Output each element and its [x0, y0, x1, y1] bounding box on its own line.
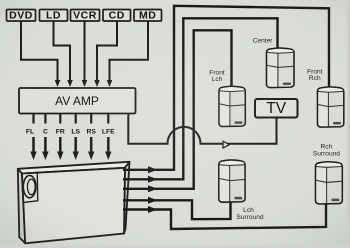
- arrowhead LS into woofer: [73, 152, 79, 161]
- speaker name labels: [209, 38, 340, 221]
- woofer front face: [22, 168, 125, 244]
- arrowhead MD into AMP: [107, 80, 113, 87]
- woofer driver inner ellipse: [27, 179, 35, 195]
- AV AMP box: [19, 88, 136, 114]
- arrow shaft FL: [32, 137, 35, 152]
- arrowhead CD into AMP: [94, 80, 100, 87]
- woofer right face: [124, 162, 130, 234]
- wire LD to AMP: [54, 21, 71, 81]
- box MD: [134, 10, 162, 22]
- page bottom edge shading: [0, 245, 350, 248]
- arrowhead C into woofer: [42, 152, 48, 161]
- arrowhead LFE into woofer: [105, 152, 111, 161]
- speaker Front Lch: [219, 86, 245, 126]
- speaker wires from woofer: [123, 6, 329, 229]
- woofer driver panel separator: [23, 173, 38, 203]
- wire VCR to AMP: [84, 21, 86, 81]
- box VCR: [71, 10, 100, 22]
- speaker Center: [266, 48, 294, 88]
- box DVD: [7, 10, 36, 22]
- active woofer module 3D box: [18, 162, 130, 244]
- wires sources to AV AMP: [21, 21, 148, 81]
- AMP output stubs: [34, 114, 109, 124]
- woofer top face: [18, 162, 130, 174]
- wire CD to AMP: [97, 21, 117, 81]
- arrowhead LD into AMP: [67, 80, 73, 87]
- wire DVD to AMP: [21, 21, 58, 81]
- wire W2 to Center: [123, 18, 278, 179]
- wire W5 to Rch Surround: [123, 204, 326, 230]
- arrowhead FR into woofer: [57, 152, 63, 161]
- arrowhead W5: [148, 206, 158, 213]
- speaker Lch Surround: [219, 160, 245, 202]
- signal direction triangle on TV wire: [223, 141, 229, 148]
- box LD: [40, 10, 68, 22]
- arrowhead VCR into AMP: [82, 80, 88, 87]
- arrow shaft FR: [59, 137, 62, 152]
- stub RS: [90, 114, 92, 124]
- vignette: [0, 0, 1, 1]
- arrowhead RS into woofer: [88, 152, 94, 161]
- speaker Rch Surround: [315, 162, 342, 204]
- arrow shaft LS: [74, 137, 77, 152]
- arrow shaft RS: [90, 137, 93, 152]
- woofer left face: [18, 169, 25, 244]
- wire W4 to Lch Surround: [123, 200, 231, 219]
- wire W1 to Front Rch: [123, 6, 329, 170]
- arrow shaft LFE: [107, 137, 110, 152]
- wire MD to AMP: [110, 21, 149, 81]
- stub FR: [59, 114, 61, 124]
- stub FL: [32, 114, 34, 124]
- stub LS: [75, 114, 77, 124]
- box CD: [103, 10, 131, 22]
- speaker Front Rch: [317, 87, 343, 127]
- stub C: [44, 114, 46, 124]
- woofer driver outer ellipse: [23, 175, 36, 197]
- arrow shaft C: [44, 137, 47, 152]
- wire W3 to Front Lch: [123, 30, 232, 189]
- arrowhead W4: [148, 197, 158, 204]
- source device boxes row: [7, 10, 162, 22]
- TV box: [255, 99, 298, 118]
- stub LFE: [107, 114, 109, 124]
- arrowhead W3: [148, 185, 158, 192]
- arrowhead W2: [148, 176, 158, 183]
- page right edge shading: [348, 0, 350, 248]
- arrowhead W1: [148, 166, 158, 173]
- arrowhead FL into woofer: [30, 152, 36, 161]
- arrowhead DVD into AMP: [55, 80, 61, 87]
- TV wire from AMP with bridge arc: [128, 114, 276, 144]
